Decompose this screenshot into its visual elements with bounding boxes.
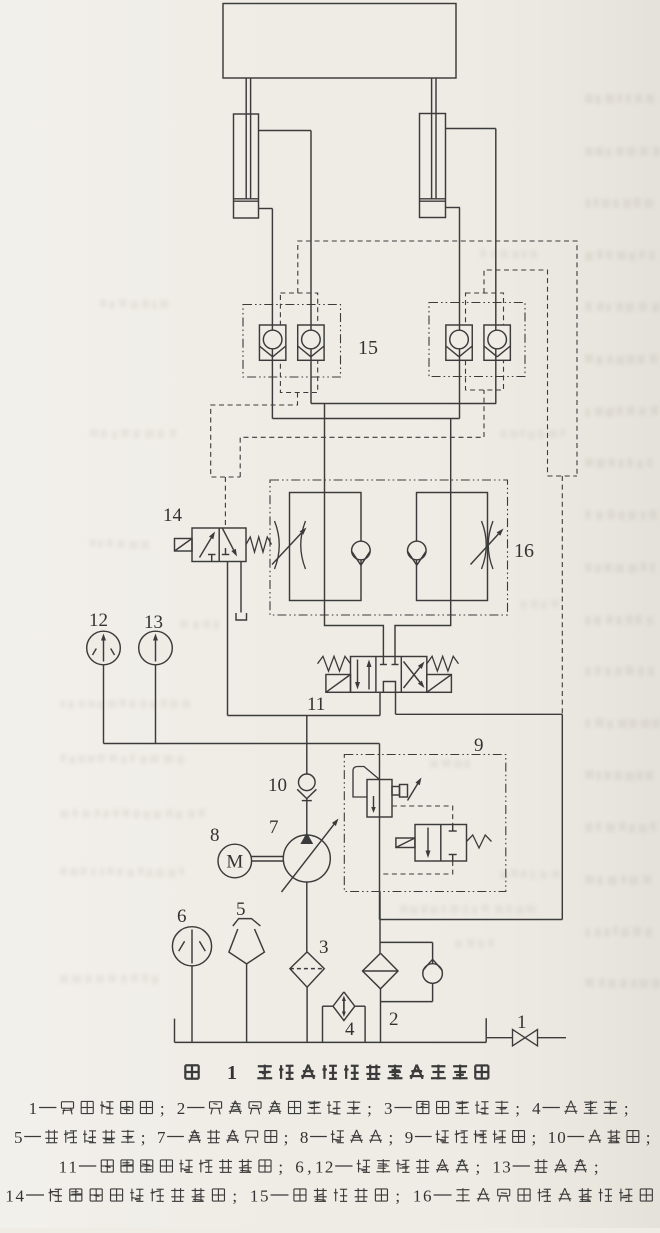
valve 11 left solenoid	[326, 675, 351, 693]
svg-text:7: 7	[157, 1128, 166, 1147]
svg-text:5: 5	[260, 1186, 269, 1205]
wire: left cylinder rod-side port	[259, 130, 312, 132]
svg-text:;: ;	[232, 1186, 237, 1205]
svg-text:;: ;	[476, 1157, 481, 1176]
svg-text:2: 2	[177, 1099, 186, 1118]
valve 14 left position flow arrow	[200, 532, 216, 562]
wire: drop to throttle left	[325, 404, 384, 657]
label 14	[163, 505, 183, 526]
label 7	[269, 817, 279, 838]
svg-text:1: 1	[69, 1157, 78, 1176]
svg-text:;: ;	[160, 1099, 165, 1118]
wire: pump suction	[306, 882, 308, 952]
wire: right lock line C	[459, 208, 461, 419]
wire: gauge 13 drop	[155, 665, 157, 744]
poppet of check valve 15B	[298, 330, 324, 357]
pilot operated check valve 15C	[446, 325, 472, 360]
wire: gauge 6 to tank	[191, 966, 193, 1043]
wire: filter 3 to tank	[306, 987, 308, 1042]
svg-text:2: 2	[389, 1009, 399, 1030]
svg-text:6: 6	[177, 906, 187, 927]
vent solenoid valve body	[415, 825, 467, 862]
wire: filter 5 to tank	[246, 964, 248, 1043]
label 13	[144, 612, 163, 633]
drain shut-off valve 1	[487, 1030, 566, 1046]
vent valve flow arrow	[426, 828, 431, 859]
variable displacement pump 7	[282, 819, 339, 893]
vent valve solenoid	[396, 838, 415, 848]
hydraulic lock 15 right enclosure	[429, 303, 525, 377]
legend line 3	[59, 1157, 599, 1176]
wire: check valve to pump	[306, 798, 308, 835]
tank	[175, 1018, 487, 1042]
svg-text:;: ;	[141, 1128, 146, 1147]
valve 11 right solenoid	[427, 675, 452, 693]
wire: tank return line T	[380, 714, 562, 919]
svg-text:11: 11	[307, 694, 325, 715]
svg-text:1: 1	[5, 1186, 14, 1205]
load platform beam	[223, 4, 456, 79]
return spring of valve 14	[246, 537, 272, 552]
svg-text:15: 15	[358, 337, 378, 359]
svg-text:10: 10	[268, 775, 287, 796]
svg-text:14: 14	[163, 505, 183, 526]
svg-text:6: 6	[295, 1157, 304, 1176]
shaft motor-pump	[252, 857, 284, 862]
legend line 2	[14, 1128, 651, 1147]
label 12	[89, 610, 108, 631]
svg-text:1: 1	[250, 1186, 259, 1205]
check valve in 16 left	[352, 541, 371, 565]
pilot line box of left hydraulic lock	[280, 293, 317, 393]
svg-text:9: 9	[405, 1128, 414, 1147]
svg-text:1: 1	[29, 1099, 38, 1118]
svg-text:;: ;	[624, 1099, 629, 1118]
solenoid valve 14 body	[192, 528, 246, 562]
label 4	[345, 1019, 355, 1040]
level gauge 6	[172, 927, 211, 966]
wire: valve 11 T port drop	[395, 692, 397, 714]
svg-text:;: ;	[284, 1128, 289, 1147]
pressure gauge 13	[139, 631, 173, 665]
wire: pressure line P	[228, 716, 381, 775]
svg-text:;: ;	[367, 1099, 372, 1118]
air breather filter 5	[229, 919, 265, 964]
valve 11 left position arrows	[355, 660, 372, 690]
poppet of check valve 15C	[446, 330, 472, 357]
svg-text:7: 7	[269, 817, 279, 838]
svg-text:;: ;	[531, 1128, 536, 1147]
valve 11 centre position blocked ports	[380, 657, 399, 693]
pilot operated check valve 15D	[484, 325, 510, 360]
svg-text:5: 5	[14, 1128, 23, 1147]
poppet of check valve 15A	[259, 330, 285, 357]
solenoid relief assembly 9 enclosure	[344, 755, 506, 892]
wire: drop to throttle right	[395, 419, 451, 657]
svg-text:4: 4	[345, 1019, 355, 1040]
vent valve spring	[467, 835, 492, 848]
svg-text:1: 1	[59, 1157, 68, 1176]
caption figure title	[185, 1062, 488, 1084]
vent pilot line dashed	[380, 806, 453, 874]
legend line 1	[29, 1099, 629, 1118]
label 9	[474, 735, 484, 756]
electric contact pressure gauge 12	[87, 631, 121, 665]
svg-text:;: ;	[278, 1157, 283, 1176]
solenoid coil of valve 14	[175, 539, 193, 552]
svg-text:3: 3	[384, 1099, 393, 1118]
wire: valve 11 P port drop	[379, 692, 381, 715]
svg-text:;: ;	[395, 1186, 400, 1205]
label 5	[236, 899, 246, 920]
svg-text:1: 1	[315, 1157, 324, 1176]
check valve 10	[297, 774, 316, 801]
pilot link right pair upper	[484, 270, 577, 476]
throttle orifice right	[471, 521, 504, 569]
svg-text:;: ;	[594, 1157, 599, 1176]
wire: relief feed and drain	[379, 744, 381, 920]
svg-text:1: 1	[517, 1012, 527, 1033]
label 11	[307, 694, 325, 715]
svg-text:8: 8	[300, 1128, 309, 1147]
hydraulic lock 15 left enclosure	[243, 305, 341, 378]
svg-text:1: 1	[548, 1128, 557, 1147]
svg-text:6: 6	[423, 1186, 432, 1205]
pilot control net from valve 14	[211, 390, 484, 528]
pilot line box of right hydraulic lock	[466, 293, 504, 390]
legend line 4	[5, 1186, 652, 1205]
wire: valve 14 supply down	[227, 562, 229, 716]
svg-text:,: ,	[307, 1157, 311, 1176]
hydraulic cylinder left	[234, 78, 259, 218]
wire: valve 14 plugged port	[236, 562, 247, 621]
hydraulic cylinder right	[420, 78, 446, 218]
svg-text:;: ;	[388, 1128, 393, 1147]
pilot drain drop to tank line	[561, 476, 563, 714]
svg-text:5: 5	[236, 899, 246, 920]
svg-text:3: 3	[319, 937, 329, 958]
wire: right cylinder rod-side port	[446, 128, 496, 130]
svg-text:12: 12	[89, 610, 108, 631]
vent valve blocked ports	[449, 825, 457, 862]
wire: rail A-C	[272, 418, 459, 420]
svg-text:1: 1	[413, 1186, 422, 1205]
svg-text:;: ;	[646, 1128, 651, 1147]
relief setting screw	[392, 778, 422, 801]
svg-text:1: 1	[227, 1062, 237, 1084]
label 3	[319, 937, 329, 958]
valve 14 right position flow arrow	[222, 529, 237, 557]
pilot relief valve main body	[353, 767, 392, 818]
wire: gauge 12 drop	[103, 665, 105, 744]
wire: rail B-D	[311, 403, 496, 405]
valve 11 right position crossed arrows	[404, 662, 425, 689]
label 2	[389, 1009, 399, 1030]
svg-text:3: 3	[502, 1157, 511, 1176]
throttle assembly 16 enclosure	[270, 480, 508, 615]
label 8	[210, 825, 220, 846]
label 16	[514, 540, 534, 562]
electric motor 8	[218, 844, 252, 878]
svg-text:;: ;	[515, 1099, 520, 1118]
label 6	[177, 906, 187, 927]
svg-text:M: M	[226, 852, 243, 873]
svg-text:1: 1	[492, 1157, 501, 1176]
svg-text:16: 16	[514, 540, 534, 562]
wire: left lock line B	[310, 131, 312, 404]
wire: right cylinder cap-side port	[446, 207, 461, 209]
svg-text:13: 13	[144, 612, 163, 633]
pilot operated check valve 15A	[259, 325, 285, 360]
label 15	[358, 337, 378, 359]
pilot drain rail (dashed) top	[298, 241, 577, 476]
svg-text:9: 9	[474, 735, 484, 756]
return filter 2	[363, 953, 399, 989]
svg-text:8: 8	[210, 825, 220, 846]
wire: left lock line A	[271, 209, 273, 419]
suction filter 3	[290, 952, 324, 987]
wire: gauge manifold line	[104, 743, 380, 745]
one-way throttle 16 left body	[290, 493, 362, 601]
label 1	[517, 1012, 527, 1033]
heater 4	[323, 992, 366, 1043]
wire: right lock line D	[495, 129, 497, 404]
svg-text:4: 4	[532, 1099, 541, 1118]
poppet of check valve 15D	[484, 330, 510, 357]
solenoid valve 11 body	[351, 657, 427, 693]
check valve in 16 right	[408, 541, 427, 565]
one-way throttle 16 right body	[417, 493, 488, 601]
bypass check valve of filter 2	[381, 942, 443, 1001]
svg-text:2: 2	[325, 1157, 334, 1176]
svg-text:4: 4	[16, 1186, 25, 1205]
throttle orifice left	[272, 521, 307, 569]
label 10	[268, 775, 287, 796]
wire: filter 2 risers	[379, 892, 382, 1043]
pilot operated check valve 15B	[298, 325, 324, 360]
svg-text:0: 0	[557, 1128, 566, 1147]
wire: left cylinder cap-side port	[259, 208, 273, 210]
valve 11 left spring	[318, 656, 351, 671]
valve 11 right spring	[427, 656, 459, 671]
